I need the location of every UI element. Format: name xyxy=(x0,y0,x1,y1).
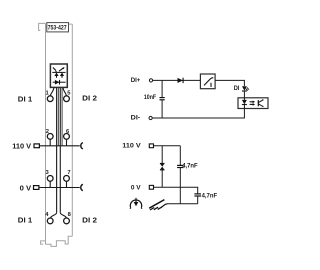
terminal square 0V xyxy=(149,185,153,189)
pin 4 xyxy=(45,212,53,224)
svg-text:10nF: 10nF xyxy=(144,94,156,101)
pin 3 xyxy=(45,170,53,188)
electronics box U1 xyxy=(50,64,67,87)
pin 5 xyxy=(64,90,72,101)
svg-text:753-427: 753-427 xyxy=(48,24,68,31)
label box 753-427 xyxy=(47,23,69,32)
dual LED indicator symbol xyxy=(52,67,65,78)
terminal DI- xyxy=(149,116,152,119)
pin 1 xyxy=(45,90,53,101)
svg-text:0 V: 0 V xyxy=(131,184,142,191)
spring clamp 0V xyxy=(81,184,83,190)
spring clamp 110V xyxy=(81,143,83,149)
wire bus to pin8 xyxy=(60,213,66,218)
opto LED xyxy=(242,98,247,109)
pin 2 xyxy=(46,129,53,146)
internal bus wires xyxy=(57,88,63,213)
wire cap branch lower xyxy=(161,100,163,118)
svg-text:DI-: DI- xyxy=(131,115,141,122)
wire cap branch B upper xyxy=(179,146,181,165)
pin 7 xyxy=(64,170,71,188)
svg-text:4,7nF: 4,7nF xyxy=(202,192,218,199)
svg-text:DI+: DI+ xyxy=(131,77,141,84)
wire TVS branch upper xyxy=(161,146,163,164)
svg-text:DI 2: DI 2 xyxy=(82,215,97,224)
diode D2 xyxy=(178,78,184,83)
functional earth symbol xyxy=(130,198,142,209)
capacitor C3 4,7nF xyxy=(194,194,201,196)
wire bus to pin4 xyxy=(50,213,56,218)
terminal square 110V xyxy=(149,144,153,148)
module bottom foot xyxy=(46,236,73,246)
svg-text:DI 1: DI 1 xyxy=(18,215,32,224)
module top-right link xyxy=(69,23,73,25)
svg-text:7: 7 xyxy=(67,170,70,176)
wire opto to DI- rail xyxy=(152,109,244,119)
svg-text:110 V: 110 V xyxy=(12,142,31,151)
filter box U2 xyxy=(200,74,215,89)
suppressor RV1 xyxy=(160,164,165,170)
wire LED to opto xyxy=(243,91,245,98)
svg-text:DI 1: DI 1 xyxy=(18,95,32,104)
pin 8 xyxy=(64,212,72,224)
svg-text:2: 2 xyxy=(46,129,49,135)
terminal DI+ xyxy=(149,79,152,82)
capacitor C2 4,7nF xyxy=(177,165,184,167)
wire cap branch upper xyxy=(161,80,163,97)
chassis ground symbol xyxy=(149,200,167,210)
wire box to pin5 xyxy=(63,88,66,96)
optocoupler box U3 xyxy=(238,98,268,109)
wire TVS branch lower xyxy=(161,170,163,187)
module bottom-left notch xyxy=(41,241,46,244)
wire 110V rail module xyxy=(39,145,79,147)
wire 0V schematic xyxy=(154,187,198,193)
wire cap C3 to earth line xyxy=(197,196,199,204)
earth line xyxy=(167,203,198,205)
svg-text:0 V: 0 V xyxy=(20,183,32,192)
module outline left edge xyxy=(45,23,47,244)
svg-text:DI: DI xyxy=(234,85,240,92)
power jumper blade 0V xyxy=(34,186,39,190)
power jumper blade 110V xyxy=(34,144,39,148)
module top-left tab xyxy=(39,23,47,30)
wire 0V rail module xyxy=(39,187,80,189)
diode D1 inside box xyxy=(53,80,66,85)
LED status indicator xyxy=(242,86,249,91)
opto light arrows xyxy=(250,101,256,106)
opto phototransistor xyxy=(258,99,263,107)
wire cap branch B lower xyxy=(179,168,181,204)
module right edge xyxy=(71,24,73,236)
svg-text:110 V: 110 V xyxy=(122,142,141,149)
svg-text:DI 2: DI 2 xyxy=(82,94,97,103)
wire box to corner xyxy=(215,80,244,86)
capacitor C1 10nF xyxy=(160,98,165,100)
wire DI+ rail xyxy=(153,79,201,81)
wire box to pin1 xyxy=(50,88,54,96)
wire 110V schematic xyxy=(154,145,181,147)
svg-text:4,7nF: 4,7nF xyxy=(182,163,198,170)
pin 6 xyxy=(64,129,70,146)
